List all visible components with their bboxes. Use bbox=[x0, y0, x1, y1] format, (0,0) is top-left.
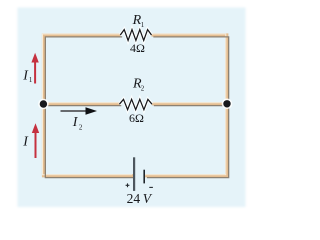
svg-text:2: 2 bbox=[79, 123, 83, 131]
svg-text:1: 1 bbox=[141, 21, 145, 29]
resistor R2 zigzag bbox=[119, 99, 152, 109]
panel background bbox=[18, 8, 246, 208]
wire dark shade layer bbox=[45, 37, 228, 178]
node B (right junction dot) bbox=[222, 99, 233, 110]
battery V1 negative plate bbox=[143, 170, 145, 184]
svg-text:1: 1 bbox=[29, 76, 33, 84]
svg-text:4Ω: 4Ω bbox=[130, 41, 145, 55]
battery minus sign bbox=[149, 186, 153, 188]
current arrow I2 (gray/black, right, middle branch) bbox=[61, 107, 98, 115]
node A (left junction dot) bbox=[38, 99, 49, 110]
battery plus sign bbox=[126, 183, 130, 187]
svg-text:6Ω: 6Ω bbox=[129, 111, 144, 125]
battery V1 positive plate bbox=[133, 157, 135, 191]
current arrow I1 (red, up, left branch top) bbox=[31, 53, 38, 84]
svg-text:2: 2 bbox=[141, 84, 145, 92]
wire main tan layer bbox=[44, 35, 227, 176]
wire top highlight layer bbox=[43, 34, 226, 175]
resistor R1 zigzag bbox=[120, 30, 151, 41]
current arrow I (red, up, left branch bottom) bbox=[32, 123, 39, 158]
svg-text:24 V: 24 V bbox=[127, 191, 153, 206]
